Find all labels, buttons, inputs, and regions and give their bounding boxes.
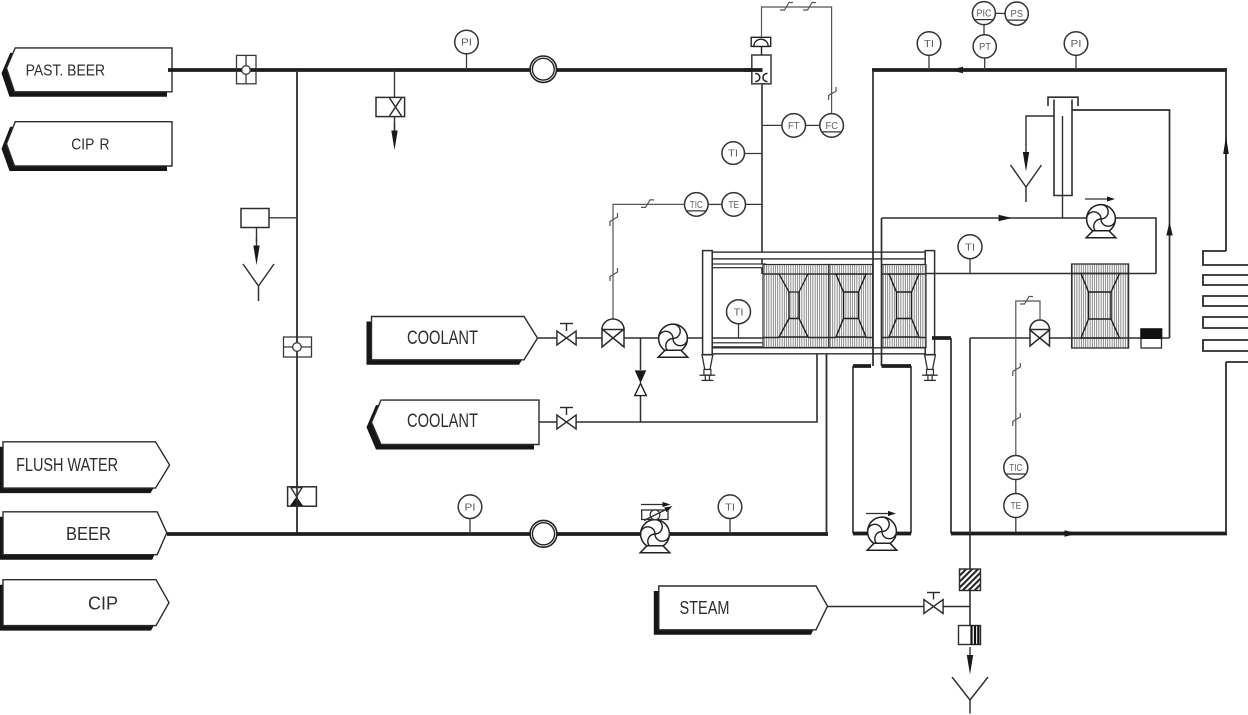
svg-text:PI: PI (461, 38, 472, 49)
svg-text:TIC: TIC (1009, 463, 1022, 474)
svg-text:PT: PT (979, 42, 991, 53)
svg-text:BEER: BEER (66, 523, 111, 544)
arrow right on bottom line (1065, 530, 1079, 536)
pump P4 hot water pump (1084, 202, 1119, 238)
banner BEER (3, 512, 167, 555)
instrument PI bottom (458, 495, 482, 534)
drain spike arrow below box (253, 228, 259, 266)
drain spike arrow below X-box (391, 117, 397, 150)
signal wire from actuator up and over to FC (762, 7, 832, 114)
HX1 left guide bar top (712, 264, 766, 268)
HX2 plate pack (1072, 264, 1129, 348)
svg-text:TI: TI (965, 242, 975, 253)
HX1 bottom carrying bar (712, 348, 927, 354)
silencer box (959, 626, 981, 645)
instrument PT (973, 35, 996, 70)
HX1 right foot (922, 355, 938, 381)
inline flow element on top line (237, 55, 257, 83)
banner FLUSH WATER shadow (0, 447, 165, 493)
svg-text:CIP: CIP (71, 137, 94, 154)
sight glass on bottom line (530, 520, 557, 547)
flow diversion valve U-DV body (744, 55, 771, 84)
signal break marks TIC2-CV2 (1020, 297, 1033, 305)
instrument PIC (972, 2, 995, 35)
wire pasteurized return down from top line (872, 70, 874, 366)
banner STEAM shadow (654, 591, 823, 635)
banner STEAM (659, 586, 828, 630)
wire HX1 pack3 outlet to bottom line (932, 336, 951, 340)
wire coolant return line (539, 421, 557, 423)
instrument TIC2 (1004, 456, 1028, 480)
HX1 left post (703, 251, 713, 355)
wire bottom beer line mid (557, 532, 828, 536)
wire riser into HX pack2 (826, 338, 828, 534)
motor box with small pump above P2 (642, 504, 674, 521)
spike arrow into funnel top right (1023, 144, 1029, 172)
wire top line left segment (168, 68, 530, 72)
svg-text:PAST. BEER: PAST. BEER (26, 62, 106, 79)
control valve CV2 before HX2 (1030, 320, 1050, 346)
wire pump suction line y=218 (882, 217, 1087, 219)
arrow right on pump line (999, 215, 1013, 221)
HX1 plate pack 3 (882, 265, 926, 348)
arrow up on far right line (1223, 136, 1229, 154)
arrow pump P2 direction (641, 502, 671, 507)
signal break marks top (780, 3, 793, 11)
instrument TI on regen line (958, 235, 982, 274)
wire bottom beer line left (167, 532, 530, 536)
signal wire TIC2 to CV2 (1016, 301, 1040, 456)
svg-text:FC: FC (826, 121, 839, 132)
signal break marks TIC-valve (641, 200, 654, 208)
svg-text:TIC: TIC (690, 200, 703, 211)
pump P3 holding tank pump (865, 514, 900, 550)
banner COOLANT supply (372, 317, 538, 360)
pump P1 coolant pump (656, 321, 691, 357)
arrow pump P3 direction (866, 511, 896, 516)
HX1 left foot (700, 355, 716, 381)
pump P2 beer feed pump (638, 517, 673, 553)
svg-text:PI: PI (465, 502, 476, 513)
arrow up on riser x=1169 (1166, 222, 1172, 236)
heating coil serpentine (1203, 251, 1248, 362)
svg-text:STEAM: STEAM (680, 597, 730, 618)
banner FLUSH WATER (3, 442, 170, 488)
svg-text:TE: TE (729, 200, 740, 211)
gate valve steam (924, 593, 943, 614)
funnel left drain (243, 264, 274, 301)
wire vessel overflow to funnel (1026, 116, 1054, 145)
drain box left (241, 209, 297, 228)
wire steam condensate vertical x=970 (969, 338, 971, 569)
banner COOLANT return (372, 400, 540, 444)
instrument TI inside HX1 (727, 300, 751, 338)
instrument PS (995, 2, 1028, 25)
arrow left on top right line (950, 67, 964, 73)
instrument PI top-right (1064, 32, 1088, 70)
svg-text:TI: TI (924, 39, 934, 50)
svg-text:COOLANT: COOLANT (407, 411, 478, 432)
banner CIP R (7, 122, 173, 166)
instrument PI top-left (455, 30, 479, 70)
wire from buffer to pump line (881, 218, 883, 366)
svg-text:PI: PI (1071, 39, 1082, 50)
gate valve coolant return (557, 408, 576, 430)
instrument TIC coolant (685, 193, 709, 217)
sight glass on top line (530, 56, 556, 82)
svg-text:TE: TE (1011, 501, 1022, 512)
HX1 left guide bar bottom (712, 343, 766, 347)
inline flow element on left vertical (284, 337, 312, 357)
banner CIP (3, 580, 169, 626)
wire steam supply line (828, 606, 925, 608)
svg-text:TI: TI (734, 307, 744, 318)
arrow pump P4 direction (1085, 196, 1115, 201)
control valve CV1 coolant (602, 319, 624, 347)
svg-text:FT: FT (788, 121, 800, 132)
wire pasteurized beer line y=273.5 (926, 273, 1156, 275)
check valve on coolant branch (635, 338, 647, 422)
instrument TI bottom (718, 495, 742, 534)
HX1 right post (925, 251, 934, 355)
drain valve X-box at x=394 (376, 70, 405, 117)
funnel steam drain (952, 677, 988, 714)
wire top line right segment (872, 68, 1227, 72)
wire divert line down x=762 (761, 84, 763, 274)
instrument FC (806, 114, 844, 138)
signal wire TIC to coolant valve (613, 204, 685, 319)
HX1 top carrying bar (712, 252, 926, 259)
HX1 plate pack 1 (763, 265, 830, 348)
instrument TI top at x=929 (917, 32, 941, 70)
wire bottom pasteurizing line right (951, 532, 1227, 536)
wire vessel top to HX2 riser (1072, 110, 1170, 338)
divert valve actuator (751, 37, 771, 55)
wire HX2 inlet line y=338 (970, 337, 1030, 339)
steam trap hatched box (960, 569, 981, 591)
wire top line mid segment (557, 68, 762, 72)
banner COOLANT supply shadow (367, 322, 533, 365)
valve X-box with filled bottom on left vertical (288, 487, 317, 506)
banner CIP R shadow (2, 127, 168, 171)
banner PAST. BEER (7, 48, 173, 92)
HX1 plate pack 2 (829, 265, 873, 348)
deaerator vessel (1048, 97, 1078, 218)
svg-text:PIC: PIC (977, 9, 992, 20)
spike arrow steam drain (967, 647, 973, 675)
instrument TI on divert line (722, 142, 762, 165)
svg-text:R: R (100, 137, 110, 154)
svg-text:TI: TI (728, 149, 738, 160)
svg-text:PS: PS (1011, 9, 1024, 20)
holding tank shell (853, 366, 911, 534)
banner CIP shadow (0, 585, 164, 631)
svg-text:CIP: CIP (88, 593, 118, 614)
svg-text:FLUSH WATER: FLUSH WATER (16, 454, 118, 475)
banner PAST. BEER shadow (2, 53, 168, 97)
svg-text:TI: TI (725, 502, 735, 513)
gate valve coolant supply (557, 324, 576, 346)
instrument TE2 (1004, 480, 1028, 533)
funnel top right (1011, 165, 1042, 202)
instrument TE coolant (708, 193, 762, 217)
banner COOLANT return shadow (367, 405, 535, 449)
wire coolant supply line (538, 337, 602, 339)
svg-text:COOLANT: COOLANT (407, 328, 478, 349)
wire left vertical x=297 (296, 70, 298, 534)
black connector box right of HX2 (1140, 328, 1162, 348)
banner BEER shadow (0, 517, 162, 560)
instrument FT (762, 114, 806, 138)
